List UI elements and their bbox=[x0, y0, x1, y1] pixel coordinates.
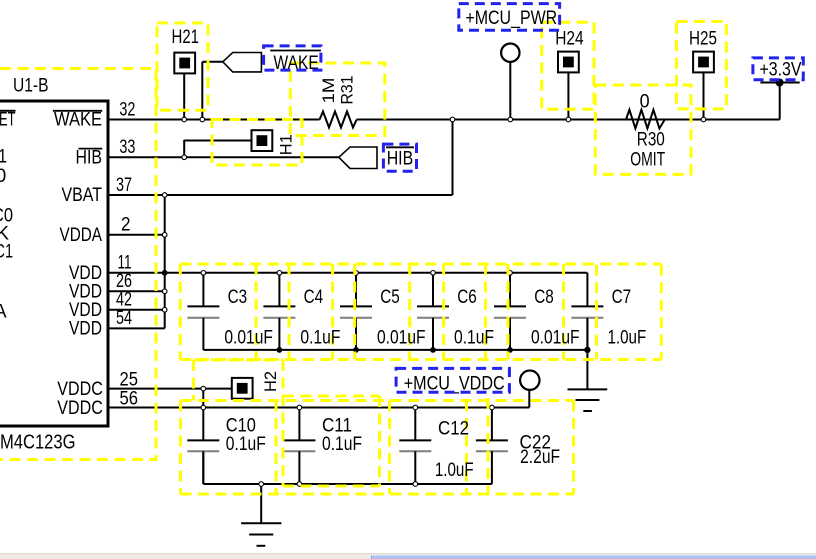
pin name HIB with overline bbox=[76, 148, 103, 169]
ground symbol lower bank bbox=[241, 523, 281, 546]
svg-text:H1: H1 bbox=[277, 134, 295, 155]
wire VDD rail pin11 to C7 bbox=[108, 272, 587, 274]
svg-text:R30: R30 bbox=[637, 129, 665, 150]
yellow dashed box around C7 bbox=[597, 265, 662, 360]
junction bbox=[508, 117, 513, 122]
net label HIB with overline bbox=[386, 147, 414, 169]
capacitor C11 bbox=[283, 408, 315, 485]
svg-text:0.01uF: 0.01uF bbox=[224, 327, 273, 348]
junction bbox=[413, 405, 418, 410]
yellow dashed boxes around C10-C22 capacitor bank bbox=[181, 396, 574, 494]
svg-text:C8: C8 bbox=[534, 287, 554, 308]
junction dot bbox=[353, 347, 359, 353]
svg-text:WAKE: WAKE bbox=[274, 53, 319, 74]
svg-text:C6: C6 bbox=[457, 287, 477, 308]
svg-text:R31: R31 bbox=[338, 76, 356, 105]
blue dashed box HIB bbox=[383, 144, 416, 171]
wire VBAT riser bbox=[452, 120, 454, 196]
wire HIB net pin33 bbox=[108, 156, 339, 158]
svg-text:0: 0 bbox=[0, 166, 6, 187]
svg-text:2: 2 bbox=[121, 215, 131, 236]
svg-text:56: 56 bbox=[120, 388, 139, 409]
yellow dashed group box around U1-B bbox=[0, 69, 156, 460]
junction bbox=[431, 271, 436, 276]
wire VDD pin26 bbox=[108, 290, 165, 292]
svg-text:2.2uF: 2.2uF bbox=[520, 447, 560, 468]
svg-text:HIB: HIB bbox=[76, 148, 103, 169]
svg-text:C1: C1 bbox=[0, 242, 13, 263]
junction bbox=[162, 193, 167, 198]
svg-text:A: A bbox=[0, 301, 7, 322]
svg-text:VDDC: VDDC bbox=[57, 379, 103, 400]
svg-text:OMIT: OMIT bbox=[630, 149, 665, 170]
capacitor C22 bbox=[476, 408, 508, 485]
junction bbox=[201, 386, 206, 391]
svg-text:C12: C12 bbox=[438, 419, 469, 440]
svg-text:37: 37 bbox=[116, 175, 132, 196]
svg-text:HIB: HIB bbox=[387, 149, 414, 170]
junction bbox=[450, 117, 455, 122]
wire +MCU_PWR stem bbox=[509, 62, 511, 120]
wire VDDC pin25 to H2 bbox=[108, 388, 232, 390]
capacitor C7 bbox=[571, 273, 603, 350]
junction bbox=[566, 117, 571, 122]
junction bbox=[162, 308, 167, 313]
wire H21 stem bbox=[183, 74, 185, 120]
junction bbox=[413, 482, 418, 487]
junction bbox=[200, 117, 205, 122]
yellow dashed box around R30 bbox=[595, 85, 691, 174]
wire VDD bus vertical bbox=[164, 195, 166, 328]
pin name WAKE with overline bbox=[53, 110, 102, 131]
capacitor C8 bbox=[494, 273, 526, 350]
svg-text:C4: C4 bbox=[304, 287, 324, 308]
wire VDD pin54 bbox=[108, 327, 165, 329]
power port +MCU_VDDC circle bbox=[520, 371, 539, 390]
svg-text:25: 25 bbox=[120, 369, 139, 390]
svg-text:54: 54 bbox=[116, 308, 132, 329]
net flag WAKE bbox=[223, 53, 262, 72]
svg-text:VDDA: VDDA bbox=[60, 225, 103, 246]
svg-text:+3.3V: +3.3V bbox=[760, 60, 802, 81]
junction dot bbox=[430, 347, 436, 353]
wire C7 lower lead to ground bbox=[586, 318, 588, 390]
junction bbox=[354, 271, 359, 276]
svg-text:32: 32 bbox=[119, 99, 135, 120]
yellow dashed box around H2 bbox=[194, 360, 284, 486]
header pin H1 bbox=[252, 130, 273, 151]
wire pin25 drop to VDDC rail bbox=[202, 389, 204, 408]
svg-text:C5: C5 bbox=[380, 287, 400, 308]
wire WAKE net pin32 left segment bbox=[108, 119, 320, 121]
ground symbol under C7 bbox=[568, 389, 608, 411]
wire WAKE flag stem horizontal bbox=[202, 61, 223, 63]
resistor R30 bbox=[626, 110, 665, 129]
svg-text:C7: C7 bbox=[612, 287, 632, 308]
svg-text:H25: H25 bbox=[689, 29, 717, 50]
capacitor C10 bbox=[187, 408, 219, 485]
wire capacitor bottom rail upper bank bbox=[203, 349, 587, 351]
capacitor C5 bbox=[340, 273, 372, 350]
svg-text:H2: H2 bbox=[262, 371, 280, 392]
junction dot bbox=[162, 270, 168, 276]
svg-text:1.0uF: 1.0uF bbox=[435, 460, 474, 481]
svg-text:WAKE: WAKE bbox=[54, 110, 102, 131]
svg-text:VDD: VDD bbox=[69, 319, 102, 340]
svg-text:VBAT: VBAT bbox=[62, 185, 103, 206]
capacitor C3 bbox=[187, 273, 219, 350]
capacitor C12 bbox=[399, 408, 431, 485]
svg-text:1M: 1M bbox=[320, 78, 338, 104]
yellow dashed box around R31 bbox=[290, 63, 384, 136]
yellow dashed boxes around C3-C8 capacitor bank bbox=[180, 264, 661, 360]
wire WAKE flag stem vertical bbox=[201, 62, 203, 120]
net flag HIB bbox=[339, 147, 377, 169]
junction bbox=[182, 155, 187, 160]
svg-text:+MCU_PWR: +MCU_PWR bbox=[465, 8, 557, 29]
junction bbox=[259, 482, 264, 487]
junction bbox=[701, 117, 706, 122]
svg-text:1: 1 bbox=[0, 147, 7, 168]
svg-text:C3: C3 bbox=[228, 287, 248, 308]
header pin H21 bbox=[174, 53, 195, 74]
blue dashed box +MCU_VDDC bbox=[396, 368, 509, 392]
wire capacitor bottom rail lower bank bbox=[203, 483, 492, 485]
yellow dashed box around H21 bbox=[157, 23, 208, 110]
junction bbox=[297, 405, 302, 410]
blue dashed box +3.3V bbox=[753, 58, 803, 80]
bottom status/scrollbar strip bbox=[0, 553, 816, 559]
wire +3.3V stem bbox=[779, 84, 781, 120]
yellow dashed box around H1 bbox=[212, 120, 302, 166]
svg-text:ET: ET bbox=[0, 110, 16, 131]
junction dot bbox=[584, 347, 590, 353]
wire VBAT pin37 bbox=[108, 194, 453, 196]
junction bbox=[508, 271, 513, 276]
net label WAKE with overline bbox=[270, 51, 321, 75]
svg-text:H21: H21 bbox=[172, 27, 200, 48]
wire H25 stem bbox=[703, 72, 705, 120]
junction bbox=[277, 271, 282, 276]
junction bbox=[182, 117, 187, 122]
blue dashed box WAKE bbox=[264, 46, 321, 70]
header pin H24 bbox=[558, 52, 579, 73]
svg-text:0.1uF: 0.1uF bbox=[300, 327, 340, 348]
svg-text:VDDC: VDDC bbox=[57, 398, 103, 419]
header pin H2 bbox=[232, 378, 253, 399]
junction bbox=[490, 405, 495, 410]
wire WAKE/+3.3V net right segment bbox=[357, 119, 780, 121]
svg-text:0.1uF: 0.1uF bbox=[454, 327, 494, 348]
header pin H25 bbox=[693, 52, 714, 73]
svg-text:0.01uF: 0.01uF bbox=[377, 327, 426, 348]
wire C10 lower lead bbox=[202, 451, 204, 484]
wire VDD pin42 bbox=[108, 309, 165, 311]
svg-text:0: 0 bbox=[640, 92, 650, 113]
IC U1-B TM4C123G body bbox=[0, 101, 108, 426]
junction bbox=[201, 405, 206, 410]
junction bbox=[162, 233, 167, 238]
wire H1 branch vertical bbox=[183, 140, 185, 158]
power port +MCU_PWR circle bbox=[501, 44, 519, 62]
yellow dashed box around H24 bbox=[542, 22, 594, 109]
yellow dashed box around H25 bbox=[677, 22, 727, 109]
svg-text:0.1uF: 0.1uF bbox=[226, 434, 266, 455]
svg-text:0.01uF: 0.01uF bbox=[531, 327, 580, 348]
wire VDDC rail pin56 bbox=[108, 407, 529, 409]
wire VDDA pin2 bbox=[108, 234, 165, 236]
junction dot bbox=[277, 347, 283, 353]
wire +MCU_VDDC stem bbox=[528, 390, 530, 407]
junction bbox=[297, 482, 302, 487]
power symbol +3.3V bar bbox=[760, 79, 799, 87]
junction bbox=[201, 271, 206, 276]
svg-text:H24: H24 bbox=[555, 29, 584, 50]
capacitor C6 bbox=[417, 273, 449, 350]
bottom scrollbar blue thumb bbox=[371, 555, 816, 559]
resistor R31 bbox=[320, 112, 357, 128]
capacitor C4 bbox=[263, 273, 295, 350]
junction bbox=[162, 289, 167, 294]
svg-text:0.1uF: 0.1uF bbox=[322, 434, 362, 455]
junction dot bbox=[507, 347, 513, 353]
blue dashed box +MCU_PWR bbox=[459, 4, 560, 31]
svg-text:33: 33 bbox=[119, 137, 135, 158]
wire ground stem lower bank bbox=[260, 484, 262, 523]
svg-text:1.0uF: 1.0uF bbox=[608, 327, 647, 348]
wire H24 stem bbox=[567, 73, 569, 120]
wire H1 branch horizontal bbox=[184, 140, 251, 142]
svg-text:U1-B: U1-B bbox=[13, 76, 49, 97]
svg-text:M4C123G: M4C123G bbox=[0, 432, 76, 454]
